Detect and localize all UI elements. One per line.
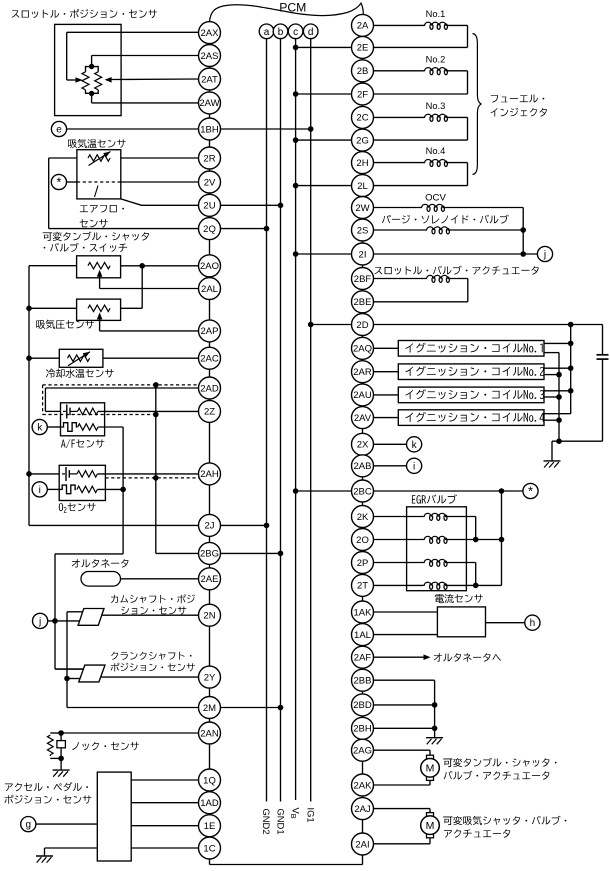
wire 2Z-2AH link	[209, 422, 211, 463]
pin 2W	[352, 197, 374, 219]
fuel injector No.2 coil	[374, 70, 424, 72]
bus IG1 (d) vertical	[310, 39, 312, 802]
ground symbol (accel)	[36, 855, 53, 857]
wire * to airflow box	[66, 181, 77, 183]
pin 2U	[199, 194, 221, 216]
tumble wiper arrow to 2AL	[99, 275, 101, 289]
pin 2BB	[352, 669, 374, 691]
svg-text:2AR: 2AR	[353, 367, 372, 378]
pin 2AH	[199, 463, 221, 485]
svg-text:2H: 2H	[356, 158, 368, 169]
fuel injector No.1 coil	[374, 24, 424, 26]
svg-text:*: *	[56, 175, 61, 190]
label throttle valve actuator	[374, 267, 382, 274]
wire 2S-2I link	[362, 241, 364, 243]
wire 2W-2S link	[362, 218, 364, 221]
wire 2F-2C link	[362, 105, 364, 106]
crank sensor symbol	[79, 665, 105, 682]
pin 2N	[199, 604, 221, 626]
wire airflow to 2U	[121, 199, 199, 205]
svg-text:OCV: OCV	[425, 193, 446, 204]
wire 2Y-2M link	[209, 688, 211, 696]
pin 2AF	[352, 646, 374, 668]
svg-text:2F: 2F	[357, 89, 368, 100]
svg-text:2AN: 2AN	[200, 728, 219, 739]
wire 1AL-2AF link	[362, 645, 364, 648]
wire M1 to 2AK	[429, 781, 431, 786]
accel pedal sensor box	[97, 772, 131, 861]
wire 2Q-2AO link	[209, 240, 211, 255]
airflow sensor box	[77, 150, 121, 199]
pin 2G	[352, 129, 374, 151]
wire c to 2L	[296, 185, 352, 187]
tumble switch box	[77, 256, 121, 278]
A/F+O2 heater return	[98, 426, 123, 428]
pin 2A	[352, 14, 374, 36]
fuel injector No.3 coil	[374, 116, 424, 118]
wire 2AK-2AJ link	[362, 796, 364, 798]
label throttle position sensor	[12, 10, 20, 17]
svg-text:2W: 2W	[355, 203, 369, 214]
wire 2J to a	[221, 524, 267, 526]
svg-text:2R: 2R	[203, 153, 215, 164]
svg-text:2BF: 2BF	[354, 274, 372, 285]
wire alternator to 2AE	[121, 578, 199, 580]
accel wires to pins	[131, 779, 198, 781]
wire 2AU-2AV link	[362, 405, 364, 408]
pin 2I	[352, 243, 374, 265]
MAP sensor box	[77, 299, 121, 320]
pin 2AV	[352, 407, 374, 429]
svg-text:2AP: 2AP	[201, 326, 219, 337]
svg-text:2AQ: 2AQ	[353, 344, 372, 355]
wire 2BB-2BD link	[362, 691, 364, 694]
node i (right)	[407, 458, 422, 473]
ignition coil No.2 box	[374, 371, 399, 373]
pin 2AN	[199, 722, 221, 744]
svg-text:2U: 2U	[203, 201, 215, 212]
label MAP sensor	[36, 320, 45, 329]
svg-text:2T: 2T	[357, 581, 368, 592]
wire 2D-2AQ link	[362, 336, 364, 338]
wire 2BD-2BH link	[362, 716, 364, 717]
wire 2AB-2BC link	[362, 477, 364, 480]
svg-text:GND2: GND2	[261, 809, 272, 835]
PCM module brace curve	[210, 3, 364, 21]
MAP sensor resistor	[88, 305, 110, 311]
svg-text:j: j	[38, 616, 41, 627]
svg-text:b: b	[278, 27, 284, 38]
wire c to 2F	[296, 93, 352, 95]
fuel injector group brace	[473, 34, 482, 175]
svg-text:2AK: 2AK	[354, 780, 373, 791]
wire 2AF-2BB link	[362, 668, 364, 669]
motor M1 (tumble actuator)	[427, 755, 434, 760]
wire k to A/F heater	[47, 426, 60, 428]
pin 2AW	[199, 92, 221, 114]
svg-text:2G: 2G	[356, 135, 369, 146]
pin 2S	[352, 219, 374, 241]
pin 2BF	[352, 268, 374, 290]
wire airflow to 2V	[121, 181, 199, 183]
node k (right)	[407, 437, 422, 452]
wire 2BD	[374, 704, 435, 706]
sensor ground rail (left)	[28, 266, 30, 526]
TPS potentiometer	[89, 64, 94, 69]
wire 2R-2V link	[209, 169, 211, 171]
label coolant temp sensor	[46, 369, 55, 378]
MAP wiper arrow to 2AP	[99, 317, 101, 331]
wire 1E-1C link	[209, 836, 211, 838]
pin 2O	[352, 529, 374, 551]
svg-text:No.4: No.4	[426, 146, 446, 156]
svg-text:2AD: 2AD	[200, 383, 219, 394]
pin 2AL	[199, 278, 221, 300]
wire 2AQ-2AR link	[362, 359, 364, 360]
svg-text:No.3: No.3	[426, 101, 446, 111]
EGR coil 3	[374, 562, 424, 564]
svg-text:c: c	[293, 27, 298, 38]
label crankshaft position sensor	[111, 652, 118, 660]
svg-text:2P: 2P	[357, 558, 369, 569]
svg-text:2AE: 2AE	[201, 574, 219, 585]
svg-text:2BD: 2BD	[353, 700, 372, 711]
label tumble shutter valve switch	[43, 232, 52, 241]
label accel pedal position sensor	[5, 784, 13, 792]
label intake air temp sensor	[68, 139, 77, 148]
svg-text:a: a	[264, 27, 270, 38]
node k (left)	[32, 419, 47, 434]
wire 2I to node j	[374, 253, 538, 255]
wire 2I-2BF link	[362, 265, 364, 268]
wire 1AK-1AL link	[362, 622, 364, 625]
ground symbol (2BB net)	[426, 737, 443, 739]
wire 2B-2F link	[362, 82, 364, 83]
pin 2AO	[199, 255, 221, 277]
wire 2K-2O link	[362, 528, 364, 529]
pin 2E	[352, 36, 374, 58]
svg-text:2AB: 2AB	[354, 461, 372, 472]
wire 2X to node k	[374, 443, 407, 445]
shield drain to 2BG	[155, 385, 157, 554]
wire 2AD-2Z link	[209, 399, 211, 400]
pin 2M	[199, 697, 221, 719]
label purge solenoid valve	[382, 215, 391, 223]
svg-text:2C: 2C	[356, 113, 368, 124]
pin 1C	[199, 837, 221, 859]
wire 2AD to A/F cell	[45, 387, 198, 389]
bus GND2 (a) vertical	[266, 39, 268, 802]
svg-text:2AT: 2AT	[201, 74, 218, 85]
wire MAP box right	[121, 307, 143, 309]
wire 2BC-2K link	[362, 502, 364, 506]
label tumble actuator	[443, 759, 452, 768]
svg-text:2O: 2O	[356, 535, 369, 546]
fuel injector No.4 coil	[374, 162, 424, 164]
svg-text:d: d	[308, 27, 314, 38]
pin 2Z	[199, 400, 221, 422]
ignition coil No.1 box	[374, 347, 399, 349]
svg-text:2AU: 2AU	[353, 390, 372, 401]
wire 2BH	[374, 727, 435, 729]
wire 2AT to TPS wiper2	[111, 78, 199, 81]
wire coolant to 2AC	[103, 357, 199, 359]
wire 2AG to motor M1	[374, 749, 431, 751]
pin 2X	[352, 433, 374, 455]
motor M2 (intake shutter actuator)	[427, 813, 434, 818]
node i (left)	[32, 482, 47, 497]
pin 2H	[352, 152, 374, 174]
wire 2AX-2AS link	[209, 43, 211, 46]
node e	[51, 121, 66, 136]
current sensor box	[437, 607, 485, 637]
cam sensor upper lead	[67, 611, 83, 613]
svg-text:2BH: 2BH	[353, 724, 372, 735]
label alternator	[72, 559, 80, 567]
wire 2M-2AN link	[209, 719, 211, 723]
svg-text:j: j	[543, 250, 546, 261]
ignition coil No.4 box	[374, 417, 399, 419]
wire 2AS to TPS top	[92, 55, 199, 57]
wire e to 1BH	[67, 128, 199, 130]
terminal a (GND2)	[259, 24, 274, 39]
terminal b (GND1)	[273, 24, 288, 39]
wire i to O2 heater	[47, 488, 59, 490]
svg-text:2E: 2E	[357, 43, 369, 54]
thermistor return to 2Q	[49, 157, 77, 159]
EGR return vertical to * net	[501, 491, 503, 585]
wire 2Q to a	[221, 228, 267, 230]
svg-text:2AW: 2AW	[199, 98, 219, 109]
svg-text:2AX: 2AX	[201, 28, 220, 39]
wire cam to 2N	[102, 614, 199, 616]
pin 2C	[352, 106, 374, 128]
1C bottom stub to bottom rail	[209, 859, 211, 865]
pin 2D	[352, 314, 374, 336]
svg-text:2Y: 2Y	[204, 672, 216, 683]
cam-crank-2M rail	[66, 612, 68, 708]
O2 sensor box	[59, 465, 105, 500]
node *	[51, 174, 66, 189]
wire 2P-2T link	[362, 573, 364, 576]
svg-text:2AL: 2AL	[201, 284, 218, 295]
pin 2AJ	[352, 798, 374, 820]
wire 2BF-2BE link	[362, 290, 364, 291]
pin 1AD	[199, 792, 221, 814]
pin 2AI	[352, 833, 374, 855]
terminal d (IG1)	[303, 24, 318, 39]
wire thermistor to 2R	[121, 157, 199, 159]
wire 2U to b	[221, 204, 281, 206]
label O2 sensor	[59, 503, 63, 511]
wire M2 to 2AI	[429, 838, 431, 844]
svg-text:2M: 2M	[203, 703, 216, 714]
A/F sensor cell	[63, 410, 66, 412]
node j (left)	[33, 613, 48, 628]
svg-text:IG1: IG1	[305, 808, 316, 823]
svg-text:e: e	[56, 125, 62, 136]
svg-text:1AL: 1AL	[354, 630, 371, 641]
throttle position sensor box	[55, 24, 122, 115]
knock sensor	[50, 732, 61, 734]
wire 2J-2BG link	[209, 536, 211, 542]
svg-text:2AG: 2AG	[353, 746, 372, 757]
pin 2BH	[352, 717, 374, 739]
svg-text:2AS: 2AS	[201, 51, 219, 62]
pin 2AX	[199, 22, 221, 44]
node g	[21, 817, 36, 832]
wire 2AS-2AT link	[209, 67, 211, 69]
coolant thermistor	[68, 355, 90, 361]
purge solenoid coil	[374, 229, 426, 231]
wire 2O-2P link	[362, 551, 364, 552]
svg-text:2I: 2I	[359, 249, 367, 260]
pin 2BC	[352, 480, 374, 502]
svg-text:2Z: 2Z	[204, 407, 215, 418]
wire 1BH-2R link	[209, 140, 211, 147]
wire 2N-2Y link	[209, 626, 211, 666]
label A/F sensor	[61, 440, 66, 448]
pin 2P	[352, 552, 374, 574]
alternator symbol	[81, 572, 121, 587]
svg-text:2AF: 2AF	[354, 653, 372, 664]
label intake shutter actuator	[443, 817, 452, 826]
pin 2J	[199, 514, 221, 536]
wire 2BG-2AE link	[209, 564, 211, 567]
svg-text:2BC: 2BC	[353, 486, 372, 497]
label to-alternator	[434, 653, 442, 661]
wire 2T-1AK link	[362, 596, 364, 601]
wire 2E-2B link	[362, 58, 364, 59]
pin 2AB	[352, 455, 374, 477]
wire 2AG-2AK link	[362, 761, 364, 774]
wire 2AW-1BH link	[209, 114, 211, 118]
wire 2V-2U link	[209, 193, 211, 194]
node * (right)	[523, 483, 538, 498]
wire 2G-2H link	[362, 150, 364, 153]
EGR coil 1	[374, 516, 424, 518]
label fuel injector	[491, 95, 498, 102]
label EGR valve	[412, 495, 415, 503]
svg-text:2V: 2V	[204, 177, 216, 188]
wire 1Q-1AD link	[209, 790, 211, 793]
svg-text:2D: 2D	[356, 320, 368, 331]
wire 2AB to node i	[374, 465, 407, 467]
EGR valve box	[407, 507, 467, 591]
node j (right)	[537, 246, 552, 261]
svg-text:2K: 2K	[357, 512, 369, 523]
pin 2Q	[199, 218, 221, 240]
svg-text:2AC: 2AC	[200, 354, 219, 365]
pin 2AU	[352, 384, 374, 406]
terminal c (VB)	[288, 24, 303, 39]
tumble switch resistor	[88, 263, 110, 269]
wire A/F cell to 2Z	[98, 410, 199, 412]
wire crank to 2Y	[101, 676, 199, 678]
A/F shield dashed	[43, 384, 199, 386]
wire 2AJ to motor M2	[374, 808, 431, 810]
bus VB (c) vertical	[295, 39, 297, 800]
wire tumble box to 2AO	[121, 265, 199, 267]
EGR coil 2	[374, 539, 424, 541]
pin 2AQ	[352, 337, 374, 359]
wire j junction	[48, 620, 80, 622]
wire 2AC-2AD link	[209, 369, 211, 377]
wire 2AE-2N link	[209, 590, 211, 604]
capacitor C (ignition filter)	[602, 325, 604, 355]
svg-text:1BH: 1BH	[200, 124, 219, 135]
svg-text:2X: 2X	[357, 440, 369, 451]
pin 1AK	[352, 601, 374, 623]
svg-text:2BG: 2BG	[200, 549, 219, 560]
wire c to 2BC	[296, 490, 352, 492]
pin 2AE	[199, 568, 221, 590]
wire 2BG to b	[221, 552, 281, 554]
coolant temp sensor box	[59, 349, 103, 367]
wire 2AW to TPS bottom	[92, 102, 199, 104]
airflow dashed internal	[77, 181, 121, 183]
svg-text:PCM: PCM	[279, 0, 306, 14]
wire c to 2E	[296, 46, 352, 48]
O2 heater	[59, 485, 76, 494]
j to crank lead	[55, 668, 83, 670]
pin 2BE	[352, 291, 374, 313]
wire c to 2G	[296, 139, 352, 141]
pin 2R	[199, 147, 221, 169]
tumble-MAP right link	[141, 266, 143, 309]
svg-text:M: M	[426, 763, 435, 775]
wire 2BC to node *	[374, 490, 524, 492]
svg-text:*: *	[528, 484, 533, 499]
svg-text:M: M	[426, 820, 435, 832]
wire 1AD-1E link	[209, 814, 211, 815]
ground symbol (knock)	[53, 769, 70, 771]
pin 2L	[352, 175, 374, 197]
svg-text:2BB: 2BB	[354, 676, 372, 687]
wire g to accel box	[36, 823, 98, 825]
svg-text:2AV: 2AV	[354, 413, 372, 424]
pin 2Y	[199, 666, 221, 688]
pin 1AL	[352, 624, 374, 646]
wire tumble box left	[29, 265, 77, 267]
wire 2AT-2AW link	[209, 90, 211, 92]
wire 2AN-1Q link	[209, 744, 211, 769]
pin 1E	[199, 815, 221, 837]
EGR coil 4	[374, 584, 424, 586]
wire 2AX to TPS wiper1	[67, 31, 199, 33]
svg-text:1Q: 1Q	[203, 775, 216, 786]
pin 1Q	[199, 769, 221, 791]
svg-text:2BE: 2BE	[354, 297, 372, 308]
A/F sensor box	[61, 403, 105, 436]
ignition ground rail	[544, 352, 559, 354]
pin 2AG	[352, 739, 374, 761]
airflow leader line	[95, 186, 99, 198]
wire 2AL-2AP link	[209, 300, 211, 320]
svg-text:2N: 2N	[203, 611, 215, 622]
label current sensor	[435, 594, 444, 603]
svg-text:i: i	[39, 485, 41, 496]
label camshaft position sensor	[111, 595, 118, 603]
wire coolant left	[29, 357, 59, 359]
A/F heater	[61, 423, 78, 432]
pin 2F	[352, 83, 374, 105]
pin 2AT	[199, 68, 221, 90]
svg-text:h: h	[530, 618, 536, 629]
OCV-purge return vertical	[522, 208, 524, 255]
pin 2BG	[199, 542, 221, 564]
pin 2AR	[352, 361, 374, 383]
